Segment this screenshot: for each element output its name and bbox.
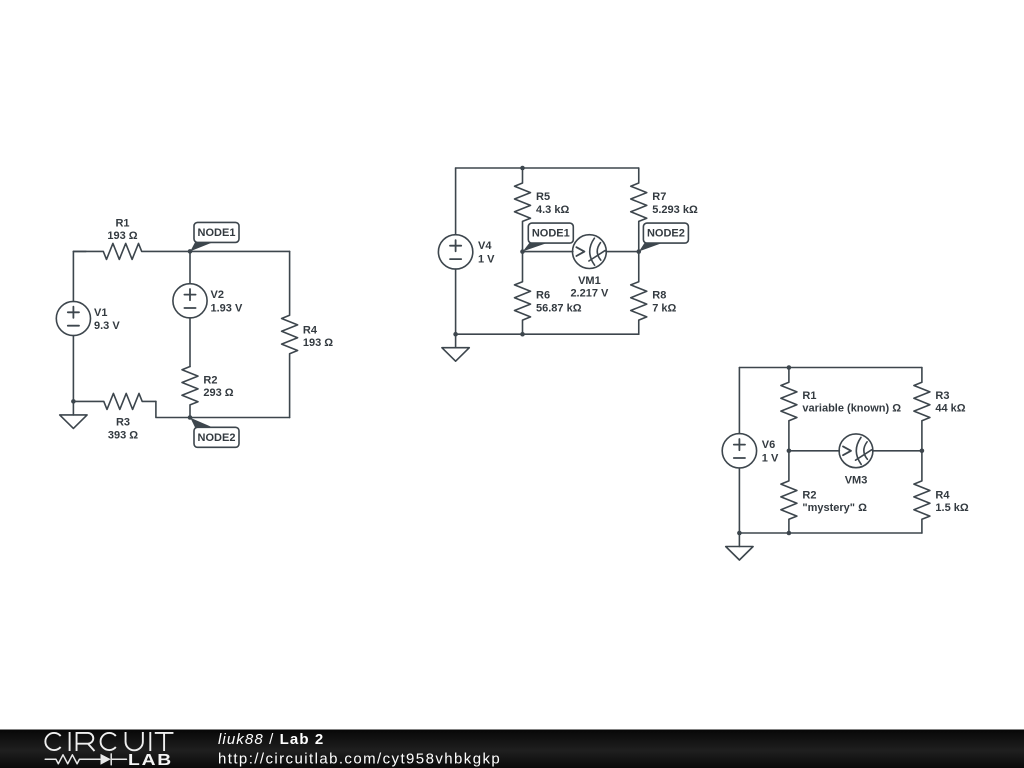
label R7 value bbox=[652, 191, 698, 216]
svg-text:56.87 kΩ: 56.87 kΩ bbox=[536, 303, 582, 315]
junction dot c2 top bbox=[520, 166, 525, 171]
label V1 value bbox=[94, 307, 120, 332]
wire left V4 bottom bbox=[455, 269, 457, 334]
resistor R8 bbox=[631, 252, 647, 335]
svg-text:R2: R2 bbox=[802, 489, 816, 501]
svg-text:VM3: VM3 bbox=[845, 475, 868, 487]
svg-text:4.3 kΩ: 4.3 kΩ bbox=[536, 204, 569, 216]
svg-text:liuk88 / Lab 2: liuk88 / Lab 2 bbox=[218, 731, 324, 748]
logo resistor-diode squiggle bbox=[45, 754, 126, 765]
resistor R7 bbox=[631, 168, 647, 252]
wire bottom rail c3 bbox=[739, 532, 922, 534]
wire top rail c2 bbox=[456, 167, 639, 169]
ground bbox=[60, 401, 87, 428]
node label NODE2 bbox=[190, 418, 239, 448]
resistor R6 bbox=[515, 252, 531, 335]
label R3 value bbox=[108, 417, 138, 442]
label R4 c3 value bbox=[935, 489, 968, 514]
svg-text:V2: V2 bbox=[211, 289, 224, 301]
svg-text:293 Ω: 293 Ω bbox=[203, 387, 233, 399]
svg-text:variable (known) Ω: variable (known) Ω bbox=[802, 403, 901, 415]
svg-text:R8: R8 bbox=[652, 290, 666, 302]
wire VM3 to right bbox=[873, 450, 922, 452]
svg-text:NODE2: NODE2 bbox=[647, 228, 685, 240]
svg-text:R3: R3 bbox=[116, 417, 130, 429]
resistor R5 bbox=[515, 168, 531, 252]
resistor R2 c3 bbox=[781, 451, 797, 533]
wire left V6 bottom bbox=[738, 468, 740, 533]
junction dot c2 bottom-mid bbox=[520, 332, 525, 337]
wire bottom NODE2 to R4 bbox=[190, 417, 290, 419]
node NODE1 c2 junction dot bbox=[520, 249, 525, 254]
svg-text:R4: R4 bbox=[303, 324, 318, 336]
label R1 value bbox=[107, 217, 137, 242]
svg-text:1.5 kΩ: 1.5 kΩ bbox=[935, 502, 968, 514]
svg-text:NODE1: NODE1 bbox=[198, 227, 236, 239]
svg-text:193 Ω: 193 Ω bbox=[107, 230, 137, 242]
junction dot c3 bottom-mid bbox=[787, 531, 792, 536]
svg-text:7 kΩ: 7 kΩ bbox=[652, 303, 676, 315]
svg-text:R4: R4 bbox=[935, 489, 950, 501]
wire NODE1 to right wire bbox=[190, 250, 290, 252]
label VM1 value bbox=[570, 275, 609, 300]
svg-text:1 V: 1 V bbox=[762, 452, 779, 464]
wire V2 top bbox=[189, 251, 191, 283]
node label NODE1 bbox=[190, 222, 239, 251]
node NODE1 junction dot bbox=[188, 249, 193, 254]
ground c2 bbox=[442, 334, 469, 361]
svg-text:2.217 V: 2.217 V bbox=[570, 287, 609, 299]
svg-text:9.3 V: 9.3 V bbox=[94, 320, 120, 332]
svg-text:R5: R5 bbox=[536, 191, 550, 203]
label VM3 bbox=[845, 475, 868, 487]
label R2 c3 value bbox=[802, 489, 867, 514]
svg-text:NODE1: NODE1 bbox=[532, 228, 570, 240]
svg-text:393 Ω: 393 Ω bbox=[108, 429, 138, 441]
resistor R3 bbox=[73, 393, 155, 409]
node NODE2 junction dot bbox=[188, 415, 193, 420]
label R3 c3 value bbox=[935, 390, 965, 415]
svg-text:R7: R7 bbox=[652, 191, 666, 203]
wire left V6 top bbox=[738, 368, 740, 434]
svg-text:NODE2: NODE2 bbox=[198, 432, 236, 444]
voltage source V4 bbox=[438, 235, 472, 269]
svg-text:V1: V1 bbox=[94, 307, 107, 319]
voltmeter VM1 bbox=[573, 235, 607, 269]
wire bottom rail c2 bbox=[456, 333, 639, 335]
svg-text:R1: R1 bbox=[115, 217, 129, 229]
svg-text:"mystery" Ω: "mystery" Ω bbox=[802, 502, 867, 514]
junction dot c3 mid-right bbox=[920, 449, 925, 454]
resistor R1 c3 bbox=[781, 368, 797, 451]
wire left V4 top bbox=[455, 168, 457, 235]
wire top-left corner to R1 bbox=[73, 250, 86, 252]
logo CIRCUIT lettering bbox=[45, 732, 173, 751]
svg-text:5.293 kΩ: 5.293 kΩ bbox=[652, 204, 698, 216]
svg-text:V6: V6 bbox=[762, 439, 775, 451]
label R5 value bbox=[536, 191, 569, 216]
svg-text:http://circuitlab.com/cyt958vh: http://circuitlab.com/cyt958vhbkgkp bbox=[218, 751, 501, 768]
svg-text:R3: R3 bbox=[935, 390, 949, 402]
label V2 value bbox=[211, 289, 243, 314]
wire R3 jog to NODE2 bbox=[156, 401, 190, 417]
resistor R1 bbox=[73, 243, 190, 259]
wire left V1 top bbox=[72, 251, 74, 301]
voltage source V2 bbox=[173, 284, 207, 318]
label R8 value bbox=[652, 290, 676, 315]
junction dot c2 bottom-left bbox=[453, 332, 458, 337]
resistor R2 bbox=[182, 367, 198, 418]
resistor R4 c3 bbox=[914, 451, 930, 533]
junction dot c3 top bbox=[787, 365, 792, 370]
voltage source V6 bbox=[722, 434, 756, 468]
label V6 value bbox=[762, 439, 779, 464]
svg-text:44 kΩ: 44 kΩ bbox=[935, 403, 965, 415]
svg-text:193 Ω: 193 Ω bbox=[303, 337, 333, 349]
node label NODE1 c2 bbox=[523, 223, 574, 251]
label V4 value bbox=[478, 240, 495, 265]
label R1 c3 value bbox=[802, 390, 901, 415]
svg-text:VM1: VM1 bbox=[578, 275, 601, 287]
label R6 value bbox=[536, 290, 582, 315]
wire top rail c3 bbox=[739, 367, 922, 369]
junction dot c3 bottom-left bbox=[737, 531, 742, 536]
svg-text:V4: V4 bbox=[478, 240, 492, 252]
label R2 value bbox=[203, 375, 233, 400]
footer bar bbox=[0, 730, 1024, 768]
svg-text:R1: R1 bbox=[802, 390, 816, 402]
wire V2 to R2 bbox=[189, 318, 191, 367]
svg-text:LAB: LAB bbox=[128, 752, 173, 768]
junction dot ground node bbox=[71, 399, 76, 404]
svg-text:R6: R6 bbox=[536, 290, 550, 302]
ground c3 bbox=[726, 533, 753, 560]
svg-text:1.93 V: 1.93 V bbox=[211, 302, 243, 314]
resistor R3 c3 bbox=[914, 368, 930, 451]
wire NODE1 to VM1 bbox=[523, 251, 573, 253]
svg-text:R2: R2 bbox=[203, 375, 217, 387]
wire left V1 bottom bbox=[72, 336, 74, 402]
voltage source V1 bbox=[56, 301, 90, 335]
svg-text:1 V: 1 V bbox=[478, 253, 495, 265]
node label NODE2 c2 bbox=[639, 223, 688, 251]
wire VM1 to NODE2 bbox=[606, 251, 639, 253]
node NODE2 c2 junction dot bbox=[636, 249, 641, 254]
label R4 value bbox=[303, 324, 333, 349]
junction dot c3 mid-left bbox=[787, 449, 792, 454]
wire mid to VM3 bbox=[789, 450, 840, 452]
voltmeter VM3 bbox=[839, 434, 873, 468]
resistor R4 bbox=[282, 251, 298, 417]
